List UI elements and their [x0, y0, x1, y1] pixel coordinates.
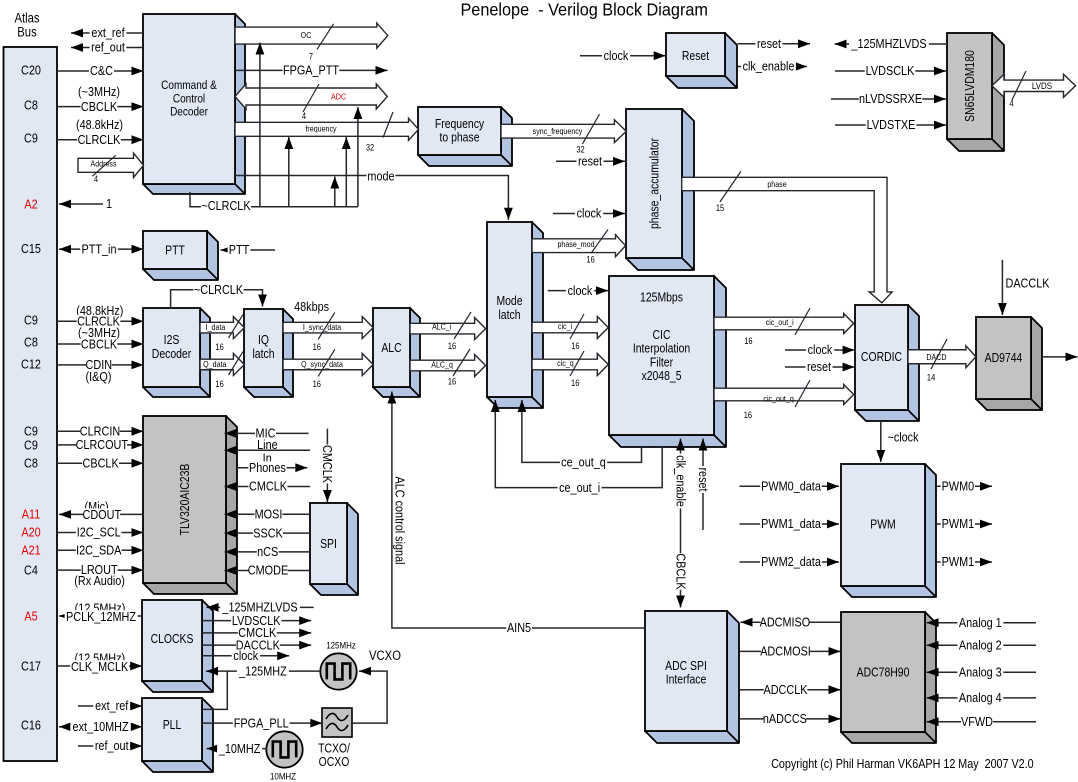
block Command & Control Decoder [143, 14, 245, 194]
svg-text:LVDS: LVDS [1032, 80, 1052, 91]
oscillator VCXO 125MHz [320, 653, 356, 689]
block ADC78H90 chip [841, 612, 936, 743]
wire Phones [237, 467, 307, 469]
bus arrow ALC_q 16 [410, 355, 486, 377]
wire reset into CORDIC [785, 366, 855, 368]
svg-text:frequency: frequency [305, 124, 336, 134]
bus arrow cic_out_i 16 [714, 314, 854, 334]
wire FPGA_PLL [203, 722, 323, 724]
svg-text:(I&Q): (I&Q) [86, 369, 112, 384]
svg-text:CMCLK: CMCLK [320, 445, 335, 483]
svg-text:phase: phase [767, 179, 786, 189]
wire ref_out into PLL [78, 745, 142, 747]
wire branch to OC [259, 43, 261, 207]
bus arrow I_data 16 [200, 317, 244, 339]
svg-text:A11: A11 [22, 507, 41, 522]
svg-text:clock: clock [808, 342, 833, 357]
svg-text:~clock: ~clock [887, 430, 918, 445]
svg-text:FPGA_PLL: FPGA_PLL [234, 715, 289, 730]
wire reset out of Reset [738, 43, 810, 45]
svg-text:cic_q: cic_q [557, 358, 574, 368]
wire branch to ADC [357, 107, 359, 207]
svg-text:Decoder: Decoder [152, 348, 192, 361]
svg-text:48kbps: 48kbps [294, 299, 329, 314]
svg-text:cic_out_i: cic_out_i [766, 317, 794, 327]
wire CBCLK (I2S) [57, 343, 144, 345]
svg-text:(Rx Audio): (Rx Audio) [74, 573, 125, 588]
block SN65LVDM180 [947, 33, 1004, 151]
svg-text:C20: C20 [21, 63, 41, 78]
wire mode [235, 176, 508, 220]
wire ext_10MHZ [59, 726, 142, 728]
wire PWM1 out (third) [936, 561, 992, 563]
wire _125MHZ branch to PLL [203, 671, 228, 709]
wire AD9744 output [1042, 356, 1078, 358]
svg-text:nLVDSSRXE: nLVDSSRXE [859, 91, 922, 106]
svg-text:Analog 3: Analog 3 [959, 664, 1002, 679]
wire _125MHZLVDS (SN65) [835, 43, 948, 45]
wire PWM2_data [740, 561, 840, 563]
svg-text:4: 4 [1009, 98, 1014, 109]
block Mode latch [487, 222, 543, 408]
wire Analog 2 [927, 644, 1037, 646]
bus arrow frequency 32 [235, 118, 419, 140]
svg-text:ADC78H90: ADC78H90 [857, 667, 910, 680]
wire PWM1 out [936, 523, 992, 525]
svg-text:C15: C15 [21, 241, 41, 256]
wire PWM1_data [740, 523, 840, 525]
svg-text:C8: C8 [24, 98, 38, 113]
svg-text:mode: mode [367, 168, 394, 183]
svg-text:Atlas: Atlas [14, 11, 39, 26]
svg-text:CBCLK: CBCLK [81, 99, 117, 114]
wire CLRCLK (C&C) [57, 139, 144, 141]
wire ~clock to PWM [880, 421, 882, 462]
wire Analog 1 [927, 622, 1037, 624]
wire branch to frequency (right) [345, 137, 347, 207]
wire SSCK [225, 532, 311, 534]
svg-text:~CLRCLK: ~CLRCLK [201, 198, 250, 213]
svg-text:latch: latch [498, 309, 520, 322]
bus arrow LVDS 4 (bidirectional) [992, 74, 1076, 97]
svg-text:TLV320AIC23B: TLV320AIC23B [179, 463, 192, 535]
block IQ latch [244, 309, 293, 397]
svg-text:PWM1_data: PWM1_data [761, 516, 821, 531]
wire ext_ref into PLL [78, 705, 142, 707]
svg-text:ADCMISO: ADCMISO [760, 614, 811, 629]
Atlas Bus rail [4, 47, 58, 761]
wire clk_enable into CIC [680, 439, 682, 534]
bus arrow Address 4 [78, 153, 144, 177]
svg-text:PWM1: PWM1 [942, 516, 975, 531]
svg-text:16: 16 [744, 409, 753, 420]
svg-text:latch: latch [252, 348, 274, 361]
svg-text:125MHz: 125MHz [326, 640, 356, 651]
svg-text:PWM0_data: PWM0_data [761, 479, 821, 494]
wire DACCLK out [202, 644, 311, 646]
svg-text:nCS: nCS [257, 544, 278, 559]
svg-text:clk_enable: clk_enable [673, 455, 688, 507]
svg-text:ADC SPI: ADC SPI [665, 660, 707, 673]
wire LVDSTXE [835, 124, 946, 126]
svg-text:reset: reset [696, 467, 711, 492]
svg-text:4: 4 [94, 173, 99, 184]
svg-text:CBCLK: CBCLK [81, 336, 117, 351]
svg-text:Bus: Bus [17, 25, 36, 40]
svg-text:ALC_i: ALC_i [432, 322, 452, 332]
svg-text:16: 16 [586, 254, 595, 265]
svg-text:PTT: PTT [165, 245, 185, 258]
svg-text:Interface: Interface [666, 674, 707, 687]
svg-text:DACD: DACD [926, 352, 946, 362]
svg-text:15: 15 [716, 202, 725, 213]
wire reset into CIC bottom [702, 439, 704, 531]
wire DACCLK into AD9744 [1001, 260, 1003, 315]
svg-text:AIN5: AIN5 [507, 620, 531, 635]
svg-text:TCXO/: TCXO/ [318, 743, 351, 756]
svg-text:Q_sync_data: Q_sync_data [301, 359, 343, 369]
svg-text:I2C_SCL: I2C_SCL [77, 525, 121, 540]
svg-text:C12: C12 [21, 357, 41, 372]
block CLOCKS block [142, 600, 213, 692]
wire ALC control signal / AIN5 [392, 392, 645, 629]
svg-text:C16: C16 [21, 718, 41, 733]
bus arrow I_sync_data 16 [283, 317, 373, 339]
svg-text:clock: clock [568, 283, 593, 298]
svg-text:VFWD: VFWD [961, 714, 993, 729]
svg-text:C8: C8 [24, 456, 38, 471]
wire LROUT (Rx Audio) [57, 569, 144, 571]
bus arrow ALC_i 16 [410, 318, 486, 340]
svg-text:125Mbps: 125Mbps [640, 292, 683, 305]
svg-text:Analog 1: Analog 1 [959, 615, 1002, 630]
svg-text:Frequency: Frequency [435, 118, 484, 131]
wire CLRCIN [57, 430, 144, 432]
wire CBCLK (C&C) [57, 106, 144, 108]
svg-text:ce_out_i: ce_out_i [559, 480, 600, 495]
wire CMCLK into codec [225, 486, 311, 488]
svg-text:PCLK_12MHZ: PCLK_12MHZ [66, 609, 136, 624]
svg-text:16: 16 [571, 377, 580, 388]
wire I2C_SCL [57, 532, 144, 534]
wire CLK_MCLK [57, 665, 142, 667]
block PTT block [143, 231, 218, 280]
svg-text:PWM0: PWM0 [942, 479, 975, 494]
svg-text:CLRCOUT: CLRCOUT [76, 437, 129, 452]
svg-text:sync_frequency: sync_frequency [533, 126, 583, 136]
svg-text:ALC control signal: ALC control signal [392, 476, 407, 564]
bus arrow phase_mod 16 [532, 235, 626, 257]
wire ADCCLK [740, 689, 841, 691]
svg-text:Command &: Command & [161, 79, 217, 92]
block PLL block [142, 698, 213, 772]
wire VFWD [927, 721, 1037, 723]
svg-text:clk_enable: clk_enable [743, 59, 795, 74]
wire CDIN [57, 364, 144, 366]
svg-text:Analog 2: Analog 2 [959, 637, 1002, 652]
block phase_accumulator [626, 109, 694, 270]
svg-text:PWM: PWM [870, 519, 895, 532]
wire clock into phase_accumulator [553, 213, 625, 215]
svg-text:16: 16 [215, 378, 224, 389]
bus arrow sync_frequency 32 [501, 120, 626, 143]
svg-text:reset: reset [807, 359, 832, 374]
wire ref_out (top) [71, 47, 143, 49]
svg-text:nADCCS: nADCCS [763, 711, 807, 726]
svg-text:16: 16 [313, 378, 322, 389]
svg-text:reset: reset [757, 36, 782, 51]
wire nADCCS [740, 718, 841, 720]
svg-text:C9: C9 [24, 313, 38, 328]
block ALC block [373, 308, 420, 397]
svg-text:DACCLK: DACCLK [1005, 275, 1049, 290]
svg-text:C9: C9 [24, 424, 38, 439]
svg-text:IQ: IQ [258, 334, 269, 347]
wire ce_out_q [522, 400, 642, 462]
svg-text:LVDSTXE: LVDSTXE [867, 117, 916, 132]
bus arrow DACD 14 [908, 346, 976, 368]
bus arrow OC 7 [235, 23, 388, 48]
svg-text:ref_out: ref_out [91, 40, 125, 55]
svg-text:C9: C9 [24, 131, 38, 146]
svg-text:Analog 4: Analog 4 [959, 690, 1002, 705]
svg-text:Filter: Filter [650, 357, 673, 370]
wire nLVDSSRXE [831, 98, 946, 100]
svg-text:10MHZ: 10MHZ [270, 771, 297, 782]
svg-text:16: 16 [571, 340, 580, 351]
svg-text:A2: A2 [24, 197, 38, 212]
svg-text:PTT: PTT [229, 242, 250, 257]
svg-text:phase_mod: phase_mod [557, 239, 594, 249]
svg-text:C&C: C&C [90, 63, 113, 78]
svg-text:Copyright (c) Phil Harman VK6A: Copyright (c) Phil Harman VK6APH 12 May … [771, 756, 1034, 771]
svg-text:32: 32 [366, 142, 375, 153]
wire A2 1 [59, 203, 103, 205]
svg-text:PLL: PLL [163, 719, 182, 732]
wire ext_ref (top) [71, 32, 143, 34]
block TLV320AIC23B codec [143, 416, 237, 594]
svg-text:cic_i: cic_i [558, 321, 572, 331]
svg-text:CBCLK: CBCLK [83, 455, 119, 470]
wire LVDSCLK (SN65) [835, 70, 946, 72]
svg-text:CLK_MCLK: CLK_MCLK [71, 659, 128, 674]
svg-text:I_sync_data: I_sync_data [303, 323, 342, 333]
block AD9744 DAC [976, 317, 1042, 410]
svg-text:PTT_in: PTT_in [82, 241, 117, 256]
svg-text:OC: OC [301, 31, 312, 41]
svg-text:SN65LVDM180: SN65LVDM180 [964, 50, 977, 122]
svg-text:clock: clock [604, 48, 629, 63]
svg-text:CLOCKS: CLOCKS [151, 633, 194, 646]
svg-text:clock: clock [577, 206, 602, 221]
svg-text:_125MHZLVDS: _125MHZLVDS [851, 36, 927, 51]
wire CMCLK out [202, 632, 311, 634]
svg-text:SPI: SPI [320, 538, 337, 551]
block ADC SPI Interface [645, 611, 739, 743]
wire CMODE [225, 570, 311, 572]
svg-text:LVDSCLK: LVDSCLK [866, 63, 915, 78]
svg-text:MOSI: MOSI [255, 507, 283, 522]
svg-text:ext_10MHZ: ext_10MHZ [73, 719, 129, 734]
svg-text:ref_out: ref_out [95, 738, 129, 753]
svg-text:reset: reset [578, 154, 603, 169]
wire ADCMOSI [740, 650, 841, 652]
svg-text:1: 1 [106, 196, 112, 211]
wire _125MHZ [206, 670, 320, 672]
svg-text:ADCCLK: ADCCLK [763, 682, 807, 697]
wire CLRCOUT [57, 444, 144, 446]
svg-text:Control: Control [173, 93, 205, 106]
bus arrow cic_out_q 16 [714, 385, 854, 405]
svg-text:I2S: I2S [164, 334, 180, 347]
wire branch to frequency (left) [288, 137, 290, 207]
wire clock out [202, 655, 289, 657]
svg-text:Mode: Mode [496, 295, 522, 308]
wire C&C [57, 70, 144, 72]
svg-text:Q_data: Q_data [203, 360, 227, 370]
wire reset into phase_accumulator [556, 160, 625, 162]
svg-text:16: 16 [313, 341, 322, 352]
svg-text:(~3MHz): (~3MHz) [78, 84, 120, 99]
wire ~CLRCLK to IQ latch [171, 290, 263, 308]
svg-text:4: 4 [302, 110, 307, 121]
wire VCXO feedback from TCXO [352, 671, 387, 723]
svg-text:OCXO: OCXO [319, 756, 350, 769]
svg-text:to phase: to phase [440, 132, 480, 145]
svg-text:C9: C9 [24, 438, 38, 453]
wire CMCLK down to SPI [326, 429, 328, 502]
svg-text:CDOUT: CDOUT [83, 507, 122, 522]
block PWM block [841, 464, 936, 597]
block CORDIC [855, 305, 919, 421]
bus arrow Q_data 16 [200, 353, 244, 375]
svg-text:FPGA_PTT: FPGA_PTT [283, 63, 340, 78]
svg-text:CORDIC: CORDIC [861, 351, 902, 364]
wire branch to mode [334, 177, 336, 207]
wire Analog 4 [927, 697, 1037, 699]
bus arrow cic_i 16 [532, 317, 608, 339]
wire PWM0 out [936, 485, 992, 487]
svg-text:16: 16 [744, 335, 753, 346]
wire MIC [225, 432, 309, 434]
wire PTT_in [59, 248, 144, 250]
block I2S Decoder [143, 308, 210, 397]
svg-text:Penelope - Verilog Block Diag: Penelope - Verilog Block Diagram [460, 0, 708, 19]
svg-text:A21: A21 [21, 543, 41, 558]
svg-text:CLRCLK: CLRCLK [78, 132, 121, 147]
svg-text:16: 16 [448, 340, 457, 351]
svg-text:ADC: ADC [331, 92, 346, 102]
bus arrow Q_sync_data 16 [283, 353, 373, 375]
svg-text:ext_ref: ext_ref [91, 25, 125, 40]
wire Line In [225, 449, 311, 451]
svg-text:phase_accumulator: phase_accumulator [649, 138, 662, 229]
wire clock into CIC [548, 290, 608, 292]
svg-text:ADCMOSI: ADCMOSI [760, 644, 811, 659]
svg-text:C4: C4 [24, 563, 38, 578]
svg-text:Phones: Phones [249, 460, 286, 475]
filter TCXO/OCXO [322, 708, 352, 737]
bus arrow cic_q 16 [532, 354, 608, 376]
svg-text:A20: A20 [21, 525, 41, 540]
svg-text:CMCLK: CMCLK [249, 479, 287, 494]
svg-text:A5: A5 [24, 609, 38, 624]
wire PCLK_12MHZ [59, 615, 142, 617]
wire PWM0_data [740, 485, 840, 487]
wire ADCMISO [741, 621, 842, 623]
block Frequency to phase [418, 107, 512, 166]
svg-text:cic_out_q: cic_out_q [763, 394, 793, 404]
block CIC Interpolation Filter [609, 276, 726, 447]
svg-text:Reset: Reset [682, 50, 710, 63]
svg-text:Decoder: Decoder [170, 106, 208, 119]
svg-text:I2C_SDA: I2C_SDA [76, 543, 121, 558]
bus arrow phase 15 (to CORDIC) [682, 177, 893, 302]
svg-text:I_data: I_data [206, 323, 226, 333]
svg-text:_10MHZ: _10MHZ [218, 741, 261, 756]
svg-text:PWM1: PWM1 [942, 554, 975, 569]
svg-text:16: 16 [215, 341, 224, 352]
svg-text:CMODE: CMODE [248, 563, 288, 578]
svg-text:Interpolation: Interpolation [633, 343, 690, 356]
wire CBCLK (codec) [57, 462, 144, 464]
svg-text:_125MHZ: _125MHZ [238, 663, 287, 678]
wire PTT out [221, 249, 276, 251]
wire clock into Reset [580, 55, 666, 57]
svg-text:clock: clock [233, 648, 258, 663]
svg-text:VCXO: VCXO [369, 648, 401, 663]
svg-text:x2048_5: x2048_5 [642, 370, 682, 383]
wire LVDSCLK out [202, 620, 311, 622]
bus arrow ADC 4 (bidirectional) [235, 84, 387, 109]
svg-text:SSCK: SSCK [253, 525, 283, 540]
wire CDOUT (Mic) [59, 513, 143, 515]
wire _10MHZ [207, 748, 267, 750]
block SPI block [310, 503, 358, 595]
wire FPGA_PTT [235, 69, 388, 71]
wire clk_enable out of Reset [738, 66, 807, 68]
svg-text:16: 16 [448, 376, 457, 387]
wire MOSI [225, 513, 311, 515]
svg-text:ALC_q: ALC_q [431, 360, 453, 370]
wire ce_out_i [495, 400, 662, 488]
wire ~CLRCLK from decoder [190, 192, 358, 207]
svg-text:14: 14 [927, 372, 936, 383]
svg-text:ALC: ALC [381, 342, 401, 355]
svg-text:(48.8kHz): (48.8kHz) [76, 117, 123, 132]
wire I2C_SDA [57, 549, 144, 551]
wire nCS [225, 551, 311, 553]
svg-text:PWM2_data: PWM2_data [761, 554, 821, 569]
svg-text:~CLRCLK: ~CLRCLK [194, 282, 243, 297]
wire clock into CORDIC [785, 349, 855, 351]
svg-text:7: 7 [309, 51, 314, 62]
wire _125MHZLVDS into CLOCKS [207, 606, 314, 608]
svg-text:C8: C8 [24, 335, 38, 350]
wire CLRCLK (I2S) [57, 320, 144, 322]
svg-text:ce_out_q: ce_out_q [561, 455, 606, 470]
svg-text:C17: C17 [21, 659, 41, 674]
block Reset [666, 33, 737, 88]
wire Analog 3 [927, 671, 1037, 673]
svg-text:AD9744: AD9744 [985, 352, 1023, 365]
svg-text:CBCLK: CBCLK [673, 553, 688, 589]
svg-text:ext_ref: ext_ref [95, 698, 129, 713]
wire CBCLK into ADC SPI [680, 533, 682, 608]
svg-text:CIC: CIC [653, 329, 671, 342]
oscillator 10MHZ [266, 731, 302, 767]
